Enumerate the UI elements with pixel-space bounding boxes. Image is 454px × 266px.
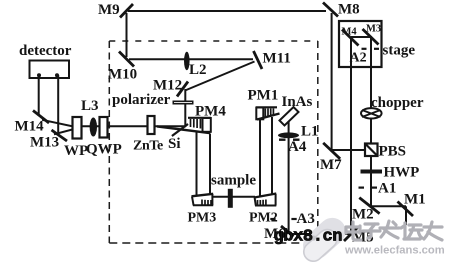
svg-text:HWP: HWP — [384, 165, 420, 181]
svg-text:A3: A3 — [297, 211, 315, 227]
lens L3 — [90, 118, 97, 137]
svg-text:PM1: PM1 — [248, 88, 279, 104]
parabolic mirror PM2 — [254, 194, 276, 206]
wire PM1 to PM2 right — [271, 117, 273, 195]
mirror M14 — [33, 111, 49, 124]
parabolic mirror PM3 — [192, 194, 214, 206]
svg-text:M2: M2 — [352, 207, 374, 223]
translation stage box — [339, 21, 382, 67]
wire M5 to M6 — [289, 233, 351, 235]
svg-text:www.elecfans.com: www.elecfans.com — [344, 244, 445, 256]
svg-text:gbx8.cn: gbx8.cn — [274, 228, 343, 247]
mirror M4 — [342, 30, 359, 46]
wire PM4 to PM3 right — [209, 134, 211, 195]
wire M6 to InAs — [288, 122, 290, 234]
char you — [424, 222, 442, 240]
half wave plate HWP — [361, 170, 383, 174]
wire PM4 to PM3 left — [196, 133, 198, 197]
mirror M7 — [323, 143, 340, 159]
svg-text:WP: WP — [64, 143, 88, 159]
wire M7 to PBS — [332, 149, 366, 151]
Wollaston prism WP — [73, 117, 82, 139]
Si beamsplitter — [172, 124, 188, 136]
detector box — [30, 61, 70, 79]
wire WP to M13 — [54, 128, 78, 134]
parabolic mirror PM1 — [256, 107, 280, 119]
wire M12 to Si junction — [184, 89, 186, 127]
aperture A3 — [270, 218, 275, 220]
mirror M12 — [177, 82, 188, 97]
svg-text:A1: A1 — [378, 181, 396, 197]
svg-text:ZnTe: ZnTe — [133, 139, 163, 154]
mirror M3 — [363, 29, 379, 45]
aperture A4 — [279, 138, 286, 140]
wire laser input to M1 — [405, 206, 407, 225]
chopper — [361, 108, 382, 118]
lens L2 — [184, 52, 190, 70]
svg-text:PM4: PM4 — [195, 104, 226, 120]
svg-text:M13: M13 — [30, 135, 59, 151]
char shao — [401, 223, 422, 239]
svg-text:A4: A4 — [288, 139, 307, 155]
ZnTe crystal — [148, 116, 155, 134]
wire M4 to M3 — [351, 36, 371, 38]
quarter wave plate QWP — [100, 117, 108, 138]
svg-text:PBS: PBS — [379, 144, 407, 160]
wire M9 to M10 — [126, 13, 128, 57]
char dian — [346, 222, 361, 240]
mirror M2 — [359, 198, 379, 214]
parabolic mirror PM4 — [157, 118, 211, 133]
watermark chinese chars strokes — [346, 221, 442, 240]
mirror M6 — [281, 226, 294, 237]
wire M14 to detector — [38, 75, 40, 116]
wire M11 to M12 diagonal — [185, 62, 255, 91]
svg-text:M8: M8 — [338, 2, 360, 18]
mirror M13 — [52, 130, 68, 141]
mirror M8 — [323, 3, 338, 17]
lens L1 — [278, 132, 299, 138]
svg-text:stage: stage — [383, 43, 416, 59]
InAs emitter — [280, 107, 299, 126]
svg-text:M3: M3 — [366, 24, 381, 35]
wire M13 to detector — [57, 75, 59, 136]
wire M3 to M2 vertical through chopper PBS HWP A1 — [370, 36, 372, 206]
svg-text:A2: A2 — [350, 51, 367, 66]
mirror M11 — [254, 51, 263, 69]
mirror M10 — [119, 52, 134, 67]
mirror M9 — [120, 4, 133, 18]
wire M10 to M11 — [129, 58, 253, 60]
svg-text:M14: M14 — [15, 119, 45, 135]
char fa — [380, 221, 399, 238]
svg-text:InAs: InAs — [282, 94, 313, 110]
svg-text:detector: detector — [19, 43, 72, 59]
svg-text:Si: Si — [168, 136, 181, 152]
sample — [228, 189, 233, 208]
wire PM1 to PM2 left — [259, 120, 261, 197]
svg-text:L3: L3 — [81, 98, 99, 114]
svg-text:polarizer: polarizer — [112, 92, 171, 108]
polarizer — [173, 101, 194, 105]
svg-text:M7: M7 — [320, 157, 342, 173]
PBS cube — [365, 144, 378, 157]
mirror M5 — [344, 227, 358, 241]
dashed enclosure box — [109, 40, 317, 42]
svg-text:chopper: chopper — [371, 95, 424, 111]
svg-text:L1: L1 — [301, 124, 319, 140]
aperture A2 — [362, 48, 367, 50]
wire M2 to M1 — [371, 205, 406, 207]
wire junction to WP — [77, 125, 187, 127]
wire PM3 to PM2 through sample — [213, 196, 255, 198]
mirror M1 — [398, 202, 414, 217]
wire WP to M14 — [42, 120, 78, 128]
wire M4 to M5 — [350, 37, 352, 234]
svg-text:sample: sample — [211, 173, 256, 189]
svg-text:M10: M10 — [108, 67, 137, 83]
wire M8 to M7 — [331, 13, 333, 150]
svg-text:M9: M9 — [98, 2, 120, 18]
aperture A1 — [359, 187, 365, 189]
char zi — [363, 224, 380, 238]
svg-text:M1: M1 — [404, 192, 426, 208]
watermark logo blobs — [297, 212, 351, 265]
svg-text:PM3: PM3 — [188, 211, 217, 226]
svg-text:M11: M11 — [263, 51, 291, 67]
svg-text:L2: L2 — [189, 62, 207, 78]
svg-text:M4: M4 — [342, 27, 358, 38]
svg-text:QWP: QWP — [86, 142, 122, 158]
wire M9 to M8 — [128, 10, 326, 12]
